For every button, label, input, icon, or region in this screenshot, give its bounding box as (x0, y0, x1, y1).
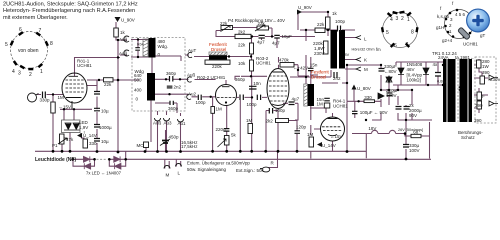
svg-text:1: 1 (407, 17, 410, 23)
svg-text:8: 8 (50, 41, 53, 47)
svg-text:1000µ: 1000µ (99, 125, 112, 130)
svg-text:100p: 100p (247, 102, 258, 107)
svg-text:100kΩ]: 100kΩ] (407, 78, 421, 83)
svg-text:AuT: AuT (188, 48, 197, 53)
svg-text:7: 7 (39, 28, 42, 34)
svg-text:Schutz: Schutz (461, 135, 476, 140)
svg-text:22k: 22k (317, 22, 325, 27)
svg-text:8V: 8V (345, 53, 350, 57)
svg-text:2k2: 2k2 (266, 119, 274, 124)
svg-text:330p: 330p (40, 98, 51, 103)
svg-text:2n2: 2n2 (174, 85, 182, 90)
svg-text:230V: 230V (314, 51, 325, 56)
svg-text:1: 1 (40, 69, 43, 75)
svg-text:46V: 46V (407, 67, 415, 72)
svg-text:5k: 5k (231, 133, 237, 138)
svg-text:MO: MO (137, 143, 145, 148)
svg-text:100µF ← 90V: 100µF ← 90V (360, 110, 388, 115)
svg-text:24VA: 24VA (438, 55, 449, 60)
svg-text:Heterodyn- Fremdüberlagerung n: Heterodyn- Fremdüberlagerung nach R.A.Fe… (3, 8, 135, 14)
svg-text:UCH81: UCH81 (256, 61, 271, 66)
svg-text:U_90V: U_90V (298, 5, 312, 10)
svg-text:3: 3 (18, 71, 21, 77)
svg-text:0,68µ: 0,68µ (437, 80, 447, 84)
svg-text:Rö2-2 UCH81: Rö2-2 UCH81 (197, 75, 226, 80)
svg-text:Auß: Auß (187, 73, 196, 78)
svg-text:47k: 47k (66, 137, 74, 142)
svg-text:10µ: 10µ (101, 139, 109, 144)
svg-text:Auß: Auß (119, 51, 128, 56)
svg-text:8: 8 (411, 30, 414, 36)
svg-text:390: 390 (475, 103, 483, 108)
svg-text:220k: 220k (212, 64, 223, 69)
svg-text:Auß: Auß (119, 37, 128, 42)
svg-text:220p: 220p (216, 127, 227, 132)
svg-text:Drossel: Drossel (211, 47, 226, 52)
svg-text:Wdg.: Wdg. (158, 44, 169, 49)
svg-text:330: 330 (364, 95, 372, 100)
svg-text:U_14V: U_14V (322, 143, 336, 148)
svg-text:2n2: 2n2 (333, 76, 341, 81)
svg-text:Drossel: Drossel (311, 75, 326, 80)
svg-text:17,5kHz: 17,5kHz (181, 144, 198, 149)
svg-text:Ext.Sign.: 50k: Ext.Sign.: 50k (236, 168, 265, 173)
svg-text:2: 2 (401, 16, 404, 22)
svg-text:10n: 10n (253, 81, 261, 86)
svg-text:10k: 10k (238, 61, 246, 66)
svg-text:360p: 360p (166, 71, 177, 76)
svg-text:F: F (482, 94, 485, 99)
svg-text:500: 500 (134, 78, 142, 83)
svg-text:360p: 360p (168, 106, 179, 111)
svg-text:50w. Signaleingang: 50w. Signaleingang (187, 167, 227, 172)
svg-text:6: 6 (394, 43, 397, 49)
svg-text:2k2: 2k2 (238, 30, 246, 35)
svg-text:k,s,g5: k,s,g5 (437, 14, 450, 19)
svg-text:2UCH81-Audion, Steckspule: SAQ: 2UCH81-Audion, Steckspule: SAQ-Grimeton … (3, 2, 138, 8)
svg-text:1W: 1W (482, 64, 490, 69)
svg-text:1M: 1M (307, 132, 314, 137)
svg-text:1M: 1M (58, 95, 65, 100)
svg-text:390: 390 (482, 70, 490, 75)
svg-text:gT: gT (480, 33, 486, 38)
svg-text:4µ7: 4µ7 (272, 41, 280, 46)
svg-text:K: K (364, 58, 367, 63)
svg-text:Auß: Auß (153, 121, 162, 126)
svg-text:100p: 100p (335, 19, 346, 24)
svg-text:Hörer32 Ohm: Hörer32 Ohm (352, 48, 375, 52)
svg-text:1k: 1k (332, 11, 338, 16)
svg-text:1k: 1k (120, 30, 126, 35)
svg-text:U_90V: U_90V (121, 18, 135, 23)
svg-text:22k: 22k (238, 43, 246, 48)
svg-text:230V: 230V (490, 77, 500, 82)
svg-text:fm: fm (376, 47, 381, 52)
svg-text:90V: 90V (409, 113, 417, 118)
svg-text:4µ7: 4µ7 (292, 97, 300, 102)
svg-text:5: 5 (5, 42, 8, 48)
svg-text:U_80V: U_80V (357, 86, 371, 91)
svg-text:10µF: 10µF (282, 34, 293, 39)
svg-text:68: 68 (413, 129, 419, 134)
svg-text:330: 330 (89, 141, 97, 146)
svg-text:2: 2 (29, 72, 32, 78)
svg-text:450p: 450p (169, 135, 180, 140)
svg-text:6: 6 (19, 27, 22, 33)
svg-text:←15V: ←15V (330, 134, 343, 139)
svg-text:5: 5 (386, 30, 389, 36)
svg-text:4µ7: 4µ7 (257, 40, 265, 45)
svg-text:1M: 1M (317, 102, 324, 107)
svg-text:Rö4: Rö4 (137, 43, 144, 47)
svg-text:4: 4 (12, 69, 15, 75)
svg-text:UCH81: UCH81 (463, 42, 478, 47)
svg-text:390: 390 (474, 118, 482, 123)
svg-text:g1H: g1H (436, 25, 444, 30)
svg-text:470k: 470k (279, 58, 290, 63)
svg-text:18V: 18V (368, 126, 376, 131)
svg-text:4 5 6: 4 5 6 (455, 12, 466, 17)
svg-text:100p: 100p (196, 100, 207, 105)
svg-text:M: M (166, 173, 170, 178)
svg-text:7: 7 (406, 42, 409, 48)
svg-text:1M: 1M (246, 118, 253, 123)
svg-text:von oben: von oben (18, 48, 39, 54)
svg-text:ta.1981←: ta.1981← (455, 55, 475, 60)
svg-text:Au2: Au2 (188, 92, 197, 97)
svg-text:U_14V: U_14V (83, 133, 97, 138)
svg-text:120p: 120p (296, 125, 307, 130)
svg-text:←15V: ←15V (59, 105, 72, 110)
svg-text:Au3: Au3 (164, 121, 173, 126)
svg-text:UCH81: UCH81 (77, 63, 92, 68)
svg-text:3: 3 (396, 16, 399, 22)
svg-text:7x LED ↔ 1N4007: 7x LED ↔ 1N4007 (86, 171, 122, 176)
svg-text:100V: 100V (409, 148, 420, 153)
svg-text:100V: 100V (386, 93, 397, 98)
svg-text:10µ: 10µ (101, 109, 109, 114)
svg-text:←80V: ←80V (384, 69, 397, 74)
svg-text:4x: 4x (433, 62, 439, 67)
svg-text:←+42V: ←+42V (293, 66, 308, 71)
svg-text:Leuchtdiode (NF): Leuchtdiode (NF) (35, 157, 76, 163)
svg-text:M: M (364, 67, 368, 72)
svg-text:22k: 22k (258, 21, 266, 26)
svg-text:UCH81: UCH81 (333, 104, 348, 109)
svg-text:g2+4: g2+4 (442, 38, 453, 43)
svg-text:1M: 1M (216, 107, 223, 112)
svg-text:100p: 100p (275, 108, 286, 113)
svg-text:15n: 15n (310, 63, 318, 68)
svg-text:22k: 22k (104, 82, 112, 87)
svg-text:mit externem Überlagerer.: mit externem Überlagerer. (3, 14, 68, 21)
svg-text:360p: 360p (235, 77, 246, 82)
svg-text:Extern. Überlagerer ca.500mVpp: Extern. Überlagerer ca.500mVpp (187, 161, 250, 166)
svg-text:26V [50w/mqs]: 26V [50w/mqs] (398, 128, 423, 132)
svg-text:P1: P1 (52, 143, 58, 148)
svg-text:4: 4 (390, 17, 393, 23)
svg-text:Au1: Au1 (178, 121, 187, 126)
svg-text:22k: 22k (220, 21, 228, 26)
svg-text:400: 400 (134, 88, 142, 93)
